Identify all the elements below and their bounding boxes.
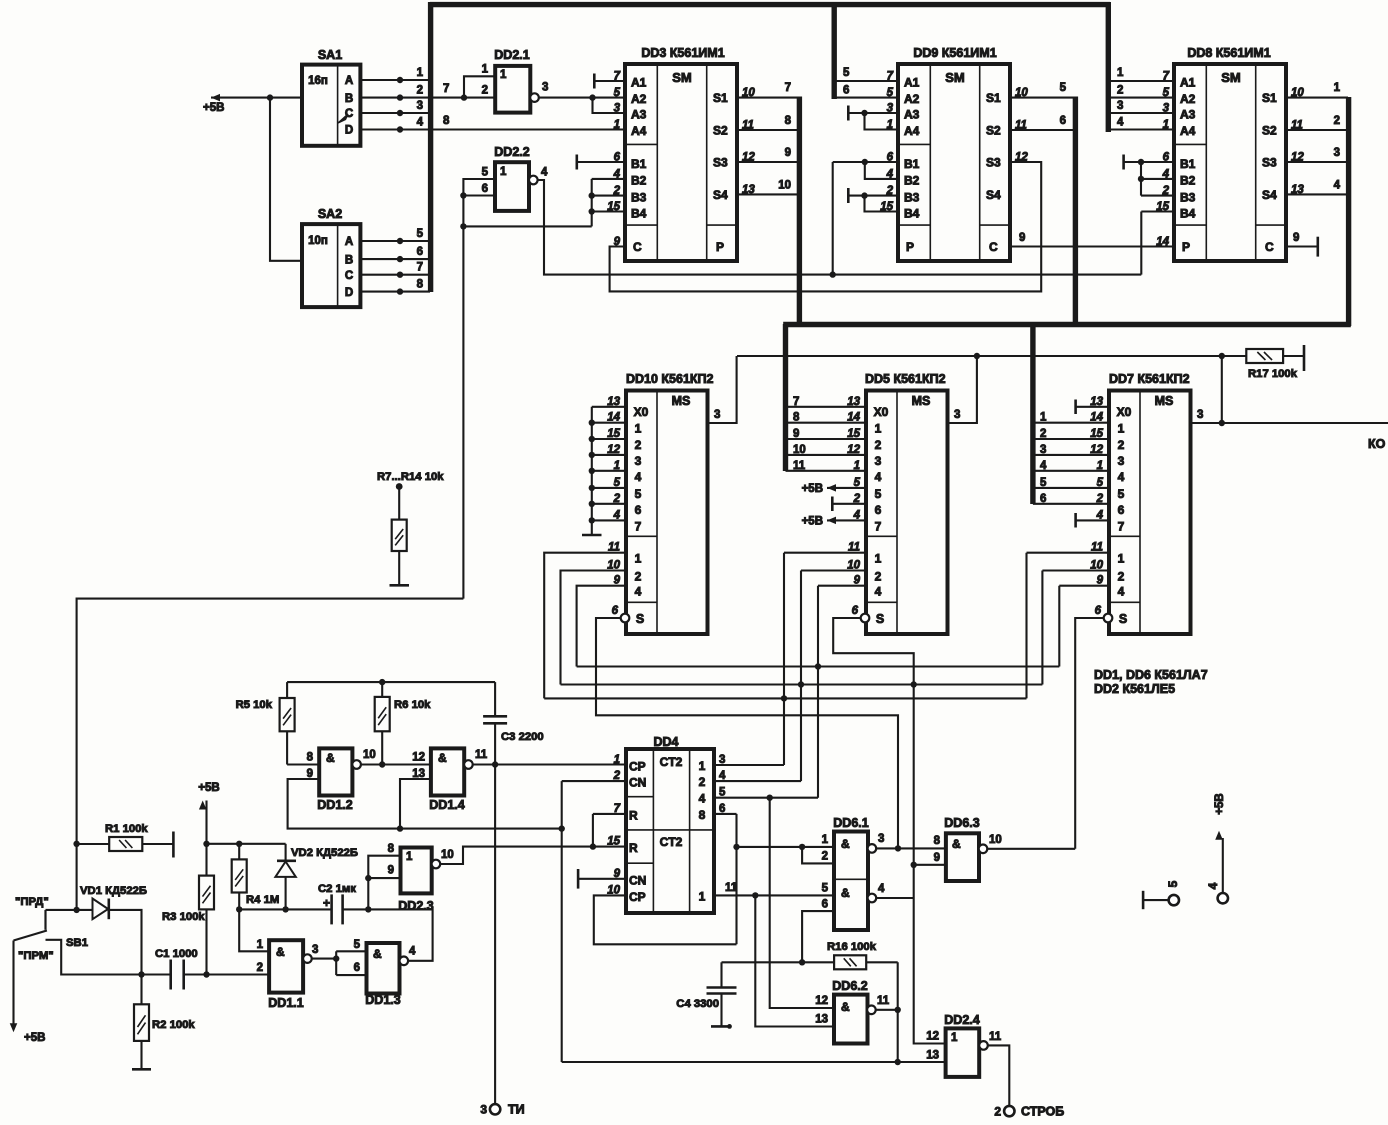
svg-text:R4 1M: R4 1M xyxy=(246,894,279,906)
wire DD3 B2/B3/B4 tie xyxy=(591,179,593,227)
svg-text:D: D xyxy=(345,125,353,137)
svg-text:DD6.1: DD6.1 xyxy=(833,816,868,830)
svg-text:1: 1 xyxy=(1118,422,1125,436)
wire DD4 out8 branch to DD6.1 pin1/2 xyxy=(737,846,835,848)
svg-text:5: 5 xyxy=(417,228,424,240)
wire bus net 3 to DD8.A3 xyxy=(1110,112,1174,114)
svg-text:1: 1 xyxy=(1040,412,1047,424)
svg-text:R16 100k: R16 100k xyxy=(827,941,877,953)
svg-text:A3: A3 xyxy=(904,108,920,122)
wire DD3.S4 to bus, net 10 xyxy=(737,193,799,195)
svg-text:2: 2 xyxy=(1334,115,1340,127)
svg-text:B2: B2 xyxy=(904,174,920,188)
svg-text:B1: B1 xyxy=(904,157,920,171)
svg-text:SM: SM xyxy=(945,70,965,85)
svg-text:9: 9 xyxy=(793,428,799,440)
svg-text:A4: A4 xyxy=(631,124,647,138)
wire DD4 out2 to riser xyxy=(714,780,801,782)
svg-text:A3: A3 xyxy=(1180,108,1196,122)
wire DD5 ctrl-2 riser xyxy=(801,569,866,571)
wire C1 to DD1.1 pin 2 xyxy=(184,973,269,975)
svg-text:&: & xyxy=(841,837,850,851)
wire DD8.S4 to bus, net 4 xyxy=(1285,193,1348,195)
svg-text:DD1, DD6 К561ЛА7: DD1, DD6 К561ЛА7 xyxy=(1094,668,1208,682)
wire - bus drop to SA switches xyxy=(428,2,433,292)
svg-text:7: 7 xyxy=(785,82,791,94)
svg-text:3: 3 xyxy=(1118,454,1125,468)
wire DD1.2 output 10 to DD1.4 pin 12 xyxy=(361,763,431,765)
svg-text:A1: A1 xyxy=(631,76,647,90)
svg-text:A1: A1 xyxy=(1180,76,1196,90)
svg-text:3: 3 xyxy=(714,409,720,421)
svg-text:10: 10 xyxy=(989,834,1002,846)
wire SA2.C to bus, pin 7 xyxy=(360,274,430,276)
svg-text:3: 3 xyxy=(312,944,318,956)
wire DD2.2 pin 5 tie xyxy=(463,179,495,196)
svg-text:11: 11 xyxy=(475,749,488,761)
svg-text:&: & xyxy=(952,837,961,851)
svg-text:DD1.3: DD1.3 xyxy=(365,993,400,1007)
wire - bus drop to DD8 A inputs xyxy=(1106,2,1111,132)
svg-text:6: 6 xyxy=(354,962,360,974)
svg-text:4: 4 xyxy=(1117,117,1124,129)
svg-text:4: 4 xyxy=(875,470,882,484)
svg-text:&: & xyxy=(438,751,447,765)
wire DD9.S2 to bus, net 6 xyxy=(1011,129,1075,131)
svg-text:DD2.2: DD2.2 xyxy=(494,145,529,159)
svg-text:2: 2 xyxy=(1117,85,1123,97)
svg-text:A2: A2 xyxy=(631,92,647,106)
svg-text:4: 4 xyxy=(1118,585,1125,599)
svg-text:DD2.1: DD2.1 xyxy=(494,48,529,62)
svg-text:P: P xyxy=(716,240,724,254)
svg-text:P: P xyxy=(1182,240,1190,254)
svg-text:S3: S3 xyxy=(986,156,1001,170)
inverter DD2.2 xyxy=(495,162,529,211)
wire DD8.B4 from DD2.2 output net xyxy=(1141,210,1174,212)
svg-text:8: 8 xyxy=(307,752,314,764)
svg-text:S: S xyxy=(876,612,884,626)
svg-text:4: 4 xyxy=(1206,882,1220,889)
wire select line 2 (DD4 out2) xyxy=(561,683,1043,685)
wire SA1.B to bus, pin 2 xyxy=(360,97,430,99)
wire DD2.2 pin 6 node / key line down xyxy=(463,194,495,196)
wire DD8 B1/B2/B3 tie terminated xyxy=(1124,161,1174,163)
terminal 3 TI xyxy=(490,1104,500,1114)
wire mux output line to R17 xyxy=(737,355,1246,357)
wire DD10 ctrl-2 to select line xyxy=(561,571,627,685)
svg-text:5: 5 xyxy=(1118,487,1125,501)
svg-text:2: 2 xyxy=(635,570,642,584)
svg-text:2: 2 xyxy=(257,962,263,974)
wire select line 1 (DD4 out1) xyxy=(544,697,1026,699)
ground - R2 xyxy=(132,1068,151,1071)
svg-text:8: 8 xyxy=(699,808,706,822)
wire CN net row to DD2.4 pin 13 xyxy=(562,1061,946,1063)
svg-text:6: 6 xyxy=(482,183,488,195)
wire DD8.S3 to bus, net 3 xyxy=(1285,161,1348,163)
svg-text:A4: A4 xyxy=(1180,124,1196,138)
svg-text:&: & xyxy=(841,1000,850,1014)
svg-text:2: 2 xyxy=(482,85,488,97)
wire DD6.1 pin6 to R16 left xyxy=(802,911,834,962)
svg-text:4: 4 xyxy=(1040,460,1047,472)
svg-text:+5В: +5В xyxy=(802,516,823,528)
svg-text:5: 5 xyxy=(354,939,361,951)
svg-text:4: 4 xyxy=(635,585,642,599)
wire DD10 output 3 up to R17 line xyxy=(708,356,737,423)
svg-text:5: 5 xyxy=(843,67,850,79)
svg-text:R: R xyxy=(629,808,638,822)
svg-text:11: 11 xyxy=(877,995,890,1007)
wire DD3 A2-A3 tie xyxy=(593,98,626,113)
wire net 8 to DD3.A4 xyxy=(432,128,625,130)
svg-text:CT2: CT2 xyxy=(660,835,683,849)
wire DD7.X0 terminated xyxy=(1076,406,1109,408)
svg-text:S1: S1 xyxy=(986,91,1001,105)
svg-text:C: C xyxy=(989,240,998,254)
svg-text:12: 12 xyxy=(926,1031,939,1043)
svg-text:9: 9 xyxy=(1293,232,1299,244)
wire bus nets 7-11 to DD5 inputs xyxy=(786,406,867,408)
svg-text:C4 3300: C4 3300 xyxy=(676,998,719,1010)
wire SA1.A to bus, pin 1 xyxy=(360,79,430,81)
svg-text:2: 2 xyxy=(1118,438,1125,452)
wire - bus drop to DD7 inputs xyxy=(1030,324,1035,504)
svg-text:1: 1 xyxy=(614,754,620,766)
svg-text:B3: B3 xyxy=(904,190,920,204)
wire DD4 out11 to DD6.1 pin 5 and DD6.2 pin 13 xyxy=(714,894,834,896)
svg-text:+5В: +5В xyxy=(24,1032,45,1044)
wire +5V rail to R4 and VD2 xyxy=(207,843,286,845)
svg-text:8: 8 xyxy=(388,843,395,855)
wire DD3.C from DD9.S3 xyxy=(610,162,1042,291)
svg-text:1: 1 xyxy=(482,64,489,76)
wire DD9 B3/B4 tie terminated xyxy=(848,195,898,197)
svg-text:B1: B1 xyxy=(1180,157,1196,171)
svg-text:КО: КО xyxy=(1368,437,1386,451)
svg-text:S1: S1 xyxy=(713,91,728,105)
svg-text:CP: CP xyxy=(629,760,646,774)
wire DD1.4 output 11 to DD4.CP xyxy=(473,763,626,765)
counter DD4 (dual CT2) xyxy=(626,749,714,913)
svg-text:CN: CN xyxy=(629,873,646,887)
svg-text:13: 13 xyxy=(926,1050,939,1062)
wire DD7 ctrl-1 riser xyxy=(1027,552,1110,554)
wire SA2.A to bus, pin 5 xyxy=(360,240,430,242)
svg-text:5: 5 xyxy=(875,487,882,501)
svg-text:6: 6 xyxy=(822,899,828,911)
wire DD2.1 pin 1 tie xyxy=(464,76,495,97)
svg-text:1: 1 xyxy=(875,422,882,436)
wire bus net 5 to DD9.A1 xyxy=(836,80,898,82)
svg-text:4: 4 xyxy=(417,117,424,129)
svg-text:B: B xyxy=(345,93,353,105)
svg-text:2: 2 xyxy=(417,85,423,97)
svg-text:1: 1 xyxy=(875,552,882,566)
wire DD6.1 out3 to DD6.3 pin 8 xyxy=(876,847,946,849)
svg-text:&: & xyxy=(373,947,382,961)
svg-text:SM: SM xyxy=(672,70,692,85)
svg-text:S: S xyxy=(1119,612,1127,626)
svg-text:S2: S2 xyxy=(713,124,728,138)
svg-text:11: 11 xyxy=(793,460,806,472)
svg-text:SM: SM xyxy=(1221,70,1241,85)
svg-text:1: 1 xyxy=(1117,67,1124,79)
wire - DD8 sum output collector bus xyxy=(1346,97,1351,326)
svg-text:X0: X0 xyxy=(874,405,889,419)
ground - C4 bottom xyxy=(711,1025,729,1028)
switch SA2 xyxy=(302,224,360,307)
wire DD2.2 output 4 to DD9.B1 / DD8.B4 xyxy=(538,180,1142,275)
wire DD8.S2 to bus, net 2 xyxy=(1285,129,1348,131)
wire DD5 ctrl-1 riser xyxy=(784,552,866,554)
svg-text:B4: B4 xyxy=(904,206,920,220)
svg-text:6: 6 xyxy=(852,605,859,617)
svg-text:DD6.3: DD6.3 xyxy=(944,816,979,830)
wire PRD contact to VD1 xyxy=(46,909,93,911)
svg-text:B4: B4 xyxy=(631,206,647,220)
svg-text:5: 5 xyxy=(482,167,489,179)
wire DD1.2 pin 9 feedback xyxy=(288,779,562,829)
svg-text:DD2.4: DD2.4 xyxy=(944,1013,979,1027)
inverter DD2.1 xyxy=(495,66,530,113)
gate DD1.2 (NAND) xyxy=(319,748,352,795)
svg-text:S4: S4 xyxy=(1262,188,1277,202)
wire DD2.3 pins 8/9 tie to C2 node xyxy=(368,856,400,910)
wire DD2.1 output 3 to DD3.A2/A3 xyxy=(539,97,625,99)
svg-text:3: 3 xyxy=(875,454,882,468)
svg-text:5: 5 xyxy=(1166,880,1180,887)
svg-text:A3: A3 xyxy=(631,108,647,122)
svg-text:&: & xyxy=(276,945,285,959)
svg-text:DD3 К561ИМ1: DD3 К561ИМ1 xyxy=(641,46,724,60)
svg-text:2: 2 xyxy=(1040,428,1046,440)
wire DD3.S3 to bus, net 9 xyxy=(737,161,799,163)
wire DD2.4 output to STROBE terminal xyxy=(988,1045,1010,1106)
wire R5 to DD1.2 pin 8 xyxy=(287,763,319,765)
svg-text:5: 5 xyxy=(719,787,726,799)
svg-text:3: 3 xyxy=(417,100,423,112)
wire SA1.D to bus, pin 4 xyxy=(360,128,430,130)
wire - bus drop to DD5 inputs xyxy=(783,324,788,471)
svg-text:R7...R14 10k: R7...R14 10k xyxy=(377,471,444,483)
svg-text:4: 4 xyxy=(613,168,621,180)
wire DD7 ctrl-2 riser xyxy=(1042,569,1109,571)
svg-text:2: 2 xyxy=(875,570,882,584)
svg-text:R1 100k: R1 100k xyxy=(105,823,148,835)
wire oscillator top rail xyxy=(287,681,495,683)
gate DD2.4 (inverter) xyxy=(946,1028,980,1077)
svg-text:14: 14 xyxy=(1156,236,1169,248)
svg-text:R5 10k: R5 10k xyxy=(236,699,273,711)
wire DD10.S to DD6.1 output xyxy=(596,618,898,848)
svg-text:8: 8 xyxy=(785,115,792,127)
svg-text:1: 1 xyxy=(1334,82,1341,94)
wire DD1.1 pin 1 from R4 node xyxy=(239,909,269,951)
svg-text:S3: S3 xyxy=(1262,156,1277,170)
svg-text:ТИ: ТИ xyxy=(508,1103,525,1117)
switch SB1 xyxy=(44,910,46,930)
svg-text:DD7 К561КП2: DD7 К561КП2 xyxy=(1109,372,1190,386)
gate DD1.1 (NAND) xyxy=(269,940,303,992)
svg-text:6: 6 xyxy=(1040,493,1046,505)
wire DD6.3 pin 9 xyxy=(914,864,946,866)
svg-text:+5В: +5В xyxy=(198,782,219,794)
svg-text:1: 1 xyxy=(406,851,413,863)
wire - second horizontal bus xyxy=(783,322,1351,327)
gate DD1.3 (NAND) xyxy=(367,943,400,994)
svg-text:P: P xyxy=(906,240,914,254)
svg-text:DD10 К561КП2: DD10 К561КП2 xyxy=(626,372,714,386)
svg-text:DD4: DD4 xyxy=(653,735,678,749)
svg-text:1: 1 xyxy=(417,67,424,79)
svg-text:6: 6 xyxy=(1118,503,1125,517)
wire key line from DD2.2 node to PRD node xyxy=(77,599,464,910)
svg-text:"ПРД": "ПРД" xyxy=(15,896,49,908)
svg-text:R3 100k: R3 100k xyxy=(162,911,205,923)
svg-text:X0: X0 xyxy=(634,405,649,419)
wire DD9 B1/B2 tie from DD2.2 output xyxy=(833,161,898,163)
terminal 2 STROBE xyxy=(1004,1106,1014,1116)
svg-text:10: 10 xyxy=(441,849,454,861)
wire - DD3 sum output collector bus xyxy=(797,97,802,327)
svg-text:DD8 К561ИМ1: DD8 К561ИМ1 xyxy=(1187,46,1270,60)
wire DD9.C to DD8.P xyxy=(1011,245,1174,247)
wire DD7 pin 4 terminated xyxy=(1076,519,1109,521)
svg-text:S2: S2 xyxy=(986,124,1001,138)
svg-text:7: 7 xyxy=(443,83,449,95)
svg-text:10п: 10п xyxy=(308,235,328,247)
svg-text:2: 2 xyxy=(699,775,706,789)
wire DD3.S2 to bus, net 8 xyxy=(737,129,799,131)
wire DD5 output 3 up to R17 line xyxy=(948,356,977,423)
svg-text:12: 12 xyxy=(412,752,425,764)
svg-text:R2 100k: R2 100k xyxy=(152,1019,195,1031)
svg-text:B: B xyxy=(345,254,353,266)
svg-text:B3: B3 xyxy=(631,190,647,204)
wire DD5 pin 2 terminated xyxy=(832,503,866,505)
wire KO output from DD7.3 xyxy=(1191,422,1388,424)
svg-text:8: 8 xyxy=(793,412,800,424)
svg-text:3: 3 xyxy=(542,82,548,94)
wire DD10 inputs common to ground xyxy=(591,407,593,530)
svg-text:1: 1 xyxy=(699,759,706,773)
wire DD2.3 output 10 to DD4 R pins xyxy=(440,847,626,864)
svg-text:B4: B4 xyxy=(1180,206,1196,220)
svg-text:MS: MS xyxy=(672,394,691,408)
svg-text:A: A xyxy=(345,75,353,87)
svg-text:10: 10 xyxy=(793,444,806,456)
wire bus net 7 to DD2.1 pin 2 xyxy=(432,97,495,99)
svg-text:4: 4 xyxy=(635,470,642,484)
wire DD4 out8 to CP10 cascade and DD6.1 xyxy=(714,813,737,815)
svg-text:5: 5 xyxy=(1060,82,1067,94)
wire SA2.D to bus, pin 8 xyxy=(360,291,430,293)
svg-text:7: 7 xyxy=(793,396,799,408)
svg-text:R: R xyxy=(629,841,638,855)
svg-text:B2: B2 xyxy=(1180,174,1196,188)
svg-text:5: 5 xyxy=(822,883,829,895)
svg-text:12: 12 xyxy=(1015,152,1028,164)
wire R17 to terminator xyxy=(1283,355,1304,357)
svg-text:DD6.2: DD6.2 xyxy=(832,979,867,993)
wire bus net 4 to DD8.A4 xyxy=(1110,128,1174,130)
svg-text:R17 100k: R17 100k xyxy=(1248,368,1298,380)
svg-text:2: 2 xyxy=(613,185,621,197)
wire DD9.S1 to bus, net 5 xyxy=(1011,97,1075,99)
svg-text:MS: MS xyxy=(912,394,931,408)
ground - DD10 inputs xyxy=(591,530,593,535)
wire DD10 ctrl-4 to select line xyxy=(577,586,626,667)
svg-text:1: 1 xyxy=(699,889,706,903)
svg-text:VD2 КД522Б: VD2 КД522Б xyxy=(291,847,358,859)
wire DD5 ctrl-4 riser xyxy=(818,585,866,587)
svg-text:2: 2 xyxy=(994,1105,1001,1119)
wire DD4 out4 branch to DD6.2 pin 12 xyxy=(767,795,773,801)
svg-text:1: 1 xyxy=(500,166,507,178)
svg-text:5: 5 xyxy=(614,87,621,99)
svg-text:1: 1 xyxy=(635,422,642,436)
svg-text:D: D xyxy=(345,287,353,299)
svg-text:A4: A4 xyxy=(904,124,920,138)
svg-text:12: 12 xyxy=(815,995,828,1007)
svg-text:SA1: SA1 xyxy=(318,48,342,62)
wire - bus drop to DD9 A inputs xyxy=(832,2,837,99)
svg-text:5: 5 xyxy=(635,487,642,501)
svg-text:R6 10k: R6 10k xyxy=(394,699,431,711)
wire +5V to SA2 xyxy=(270,98,302,261)
svg-text:15: 15 xyxy=(607,201,620,213)
wire DD5.S to DD6.1 out4 net xyxy=(833,618,945,1044)
svg-text:10: 10 xyxy=(778,179,791,191)
svg-text:C1 1000: C1 1000 xyxy=(155,948,198,960)
svg-text:SA2: SA2 xyxy=(318,207,342,221)
svg-text:MS: MS xyxy=(1155,394,1174,408)
switch SA1 xyxy=(302,65,360,146)
svg-text:9: 9 xyxy=(388,865,394,877)
svg-text:2: 2 xyxy=(875,438,882,452)
gate DD6.1 (two NAND) xyxy=(834,832,868,931)
svg-text:4: 4 xyxy=(875,585,882,599)
svg-text:1: 1 xyxy=(257,939,264,951)
svg-text:9: 9 xyxy=(934,852,940,864)
wire bus net 2 to DD8.A2 xyxy=(1110,97,1174,99)
wire bus nets 1-6 to DD7 inputs xyxy=(1033,422,1109,424)
svg-text:"ПРМ": "ПРМ" xyxy=(18,950,54,962)
wire DD4 R7-R15 tie xyxy=(592,814,594,847)
wire - DD9 sum output collector bus xyxy=(1073,97,1078,327)
svg-text:15: 15 xyxy=(607,836,620,848)
svg-text:9: 9 xyxy=(1019,232,1025,244)
svg-text:9: 9 xyxy=(785,147,791,159)
svg-text:4: 4 xyxy=(699,792,706,806)
gate DD2.3 (NOR as inverter) xyxy=(401,848,432,894)
svg-text:10: 10 xyxy=(363,749,376,761)
wire bus net 1 to DD8.A1 xyxy=(1110,80,1174,82)
svg-text:C3 2200: C3 2200 xyxy=(501,731,544,743)
svg-text:3: 3 xyxy=(480,1103,487,1117)
wire SA2.B to bus, pin 6 xyxy=(360,258,430,260)
svg-text:DD2 К561ЛЕ5: DD2 К561ЛЕ5 xyxy=(1094,682,1175,696)
svg-text:S1: S1 xyxy=(1262,91,1277,105)
svg-text:3: 3 xyxy=(1197,409,1203,421)
svg-text:X0: X0 xyxy=(1117,405,1132,419)
wire DD6.2 output 11 xyxy=(876,1009,898,1011)
svg-text:6: 6 xyxy=(635,503,642,517)
svg-text:S4: S4 xyxy=(713,188,728,202)
svg-text:7: 7 xyxy=(635,519,642,533)
